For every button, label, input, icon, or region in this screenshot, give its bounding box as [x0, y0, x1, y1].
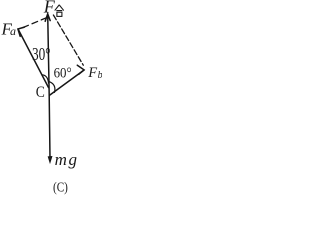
60 degree angle arc [50, 82, 55, 93]
svg-text:30°: 30° [32, 45, 51, 64]
svg-text:a: a [10, 24, 16, 38]
30 degree angle arc [42, 75, 48, 83]
svg-text:F: F [87, 65, 97, 81]
svg-text:F: F [43, 0, 56, 16]
arrowhead mg (solid) [48, 157, 52, 163]
arrowhead Fa [18, 27, 25, 36]
arrowhead Fb [77, 65, 84, 74]
wire: force Fb line [49, 70, 84, 95]
dashed construction line from F合 tip to Fb tip [53, 15, 83, 65]
svg-text:b: b [98, 70, 102, 81]
wire: force Fa line [18, 29, 48, 87]
svg-text:(C): (C) [53, 179, 68, 194]
arrowhead of resultant F合 [45, 14, 50, 21]
svg-text:60°: 60° [54, 66, 72, 82]
svg-text:mg: mg [55, 150, 79, 169]
svg-text:C: C [36, 84, 45, 101]
dashed construction line from Fa tip to F合 tip [23, 18, 47, 28]
label 合 subscript (drawn glyph) [55, 5, 64, 16]
wire: main vertical line (F-he up / mg down through C) [48, 14, 50, 158]
